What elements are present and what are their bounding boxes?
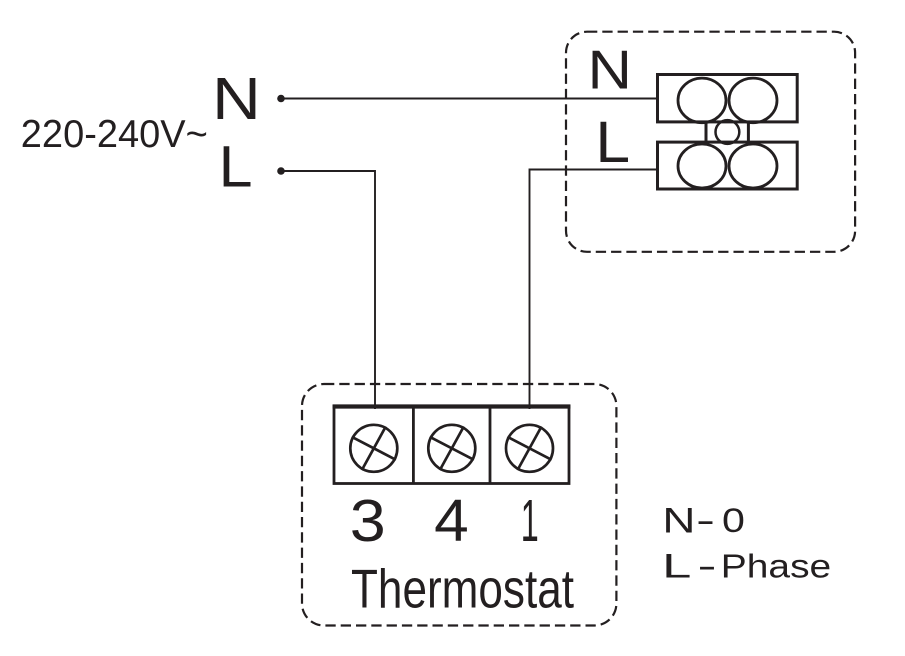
svg-text:1: 1 [521, 488, 539, 554]
svg-text:L: L [595, 110, 630, 175]
thermostat enclosure (dashed box) [302, 384, 616, 626]
svg-text:3: 3 [350, 488, 386, 554]
wire L supply down to thermostat terminal 3 [281, 171, 375, 409]
svg-text:L: L [219, 134, 253, 199]
svg-text:N: N [662, 501, 695, 540]
svg-text:220-240V~: 220-240V~ [21, 113, 208, 156]
legend L - Phase [662, 548, 831, 586]
svg-text:Phase: Phase [721, 549, 831, 586]
junction dot L [277, 167, 285, 175]
wire thermostat terminal 1 up to load terminal block L [530, 170, 660, 410]
screw terminal 3 [350, 425, 397, 472]
screw terminal 4 [428, 425, 475, 472]
legend N - 0 [662, 501, 745, 540]
svg-text:0: 0 [722, 502, 745, 540]
junction dot N [277, 95, 285, 103]
mounting hole (small circle) [716, 120, 740, 144]
svg-text:-: - [696, 502, 715, 540]
svg-text:N: N [212, 65, 261, 132]
terminal block L (load) [658, 142, 798, 189]
svg-text:4: 4 [434, 488, 469, 554]
screw terminal 1 [506, 425, 553, 472]
load enclosure (dashed box) [566, 32, 855, 252]
svg-text:-: - [698, 548, 717, 586]
thermostat terminal strip [333, 406, 571, 484]
svg-text:Thermostat: Thermostat [351, 559, 574, 620]
terminal block N (load) [658, 75, 798, 123]
svg-text:L: L [662, 548, 691, 586]
svg-text:N: N [588, 40, 633, 101]
wire N supply to load terminal block [281, 98, 659, 100]
connector links between terminal blocks [706, 122, 748, 142]
